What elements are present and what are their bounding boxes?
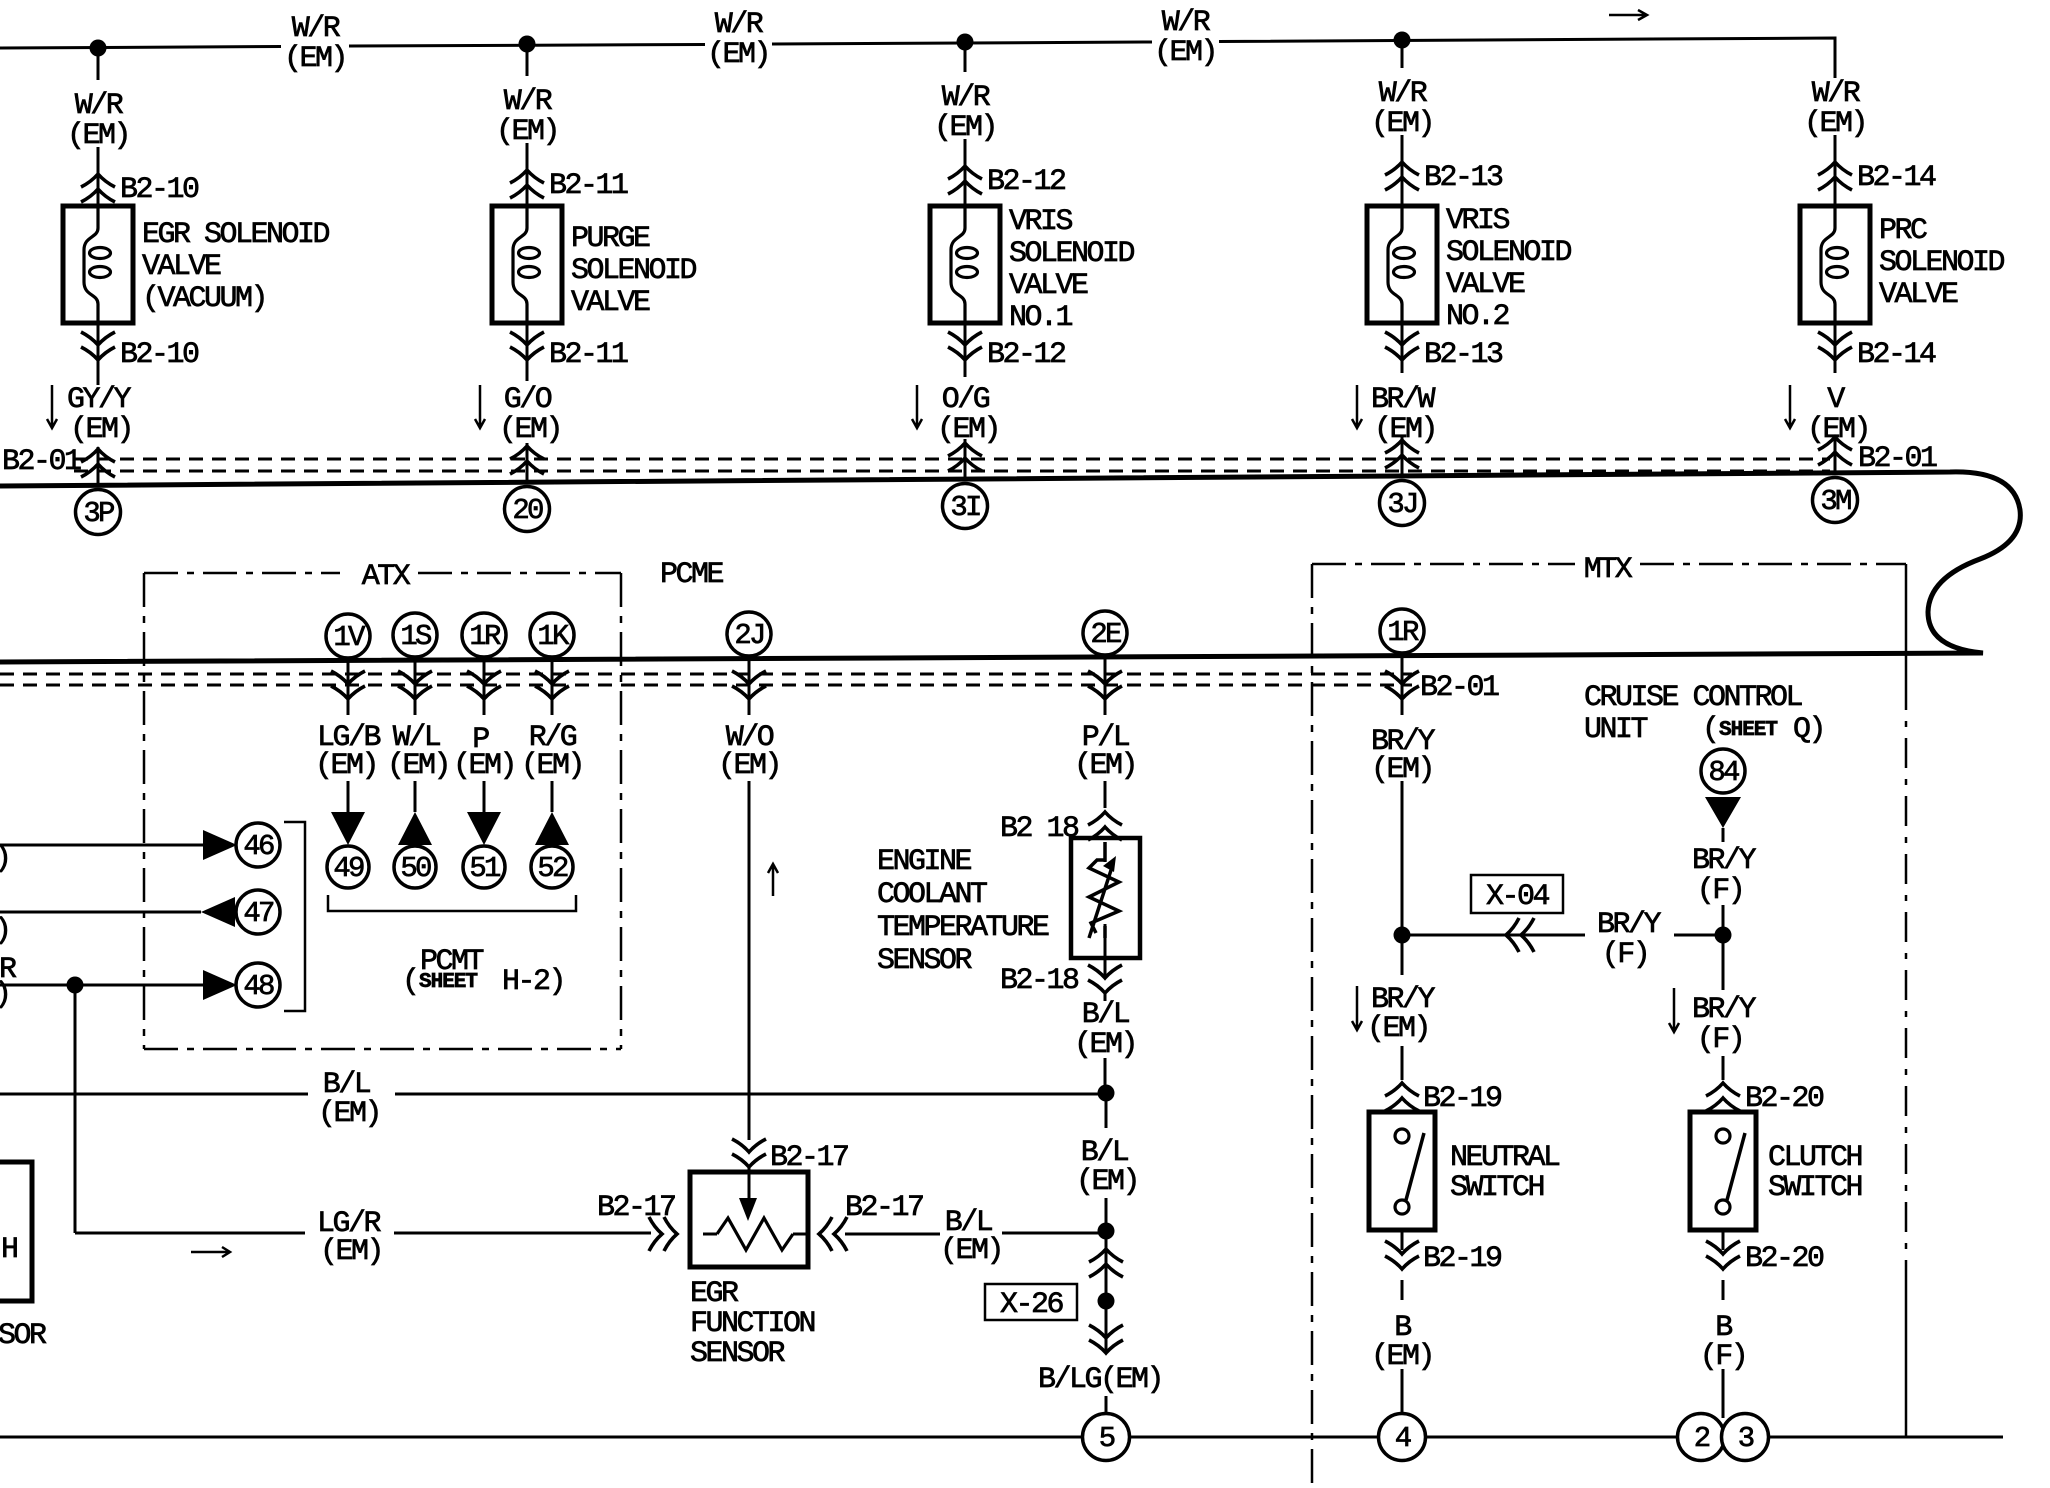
svg-text:H-2): H-2)	[502, 965, 564, 999]
svg-text:W/R: W/R	[715, 8, 764, 42]
svg-text:3J: 3J	[1387, 488, 1416, 521]
svg-text:ATX: ATX	[362, 560, 411, 594]
svg-text:W/R: W/R	[504, 85, 553, 119]
svg-text:W/R: W/R	[1162, 6, 1211, 40]
svg-text:4: 4	[1395, 1422, 1411, 1455]
svg-text:(EM): (EM)	[1074, 1028, 1136, 1062]
svg-text:VALVE: VALVE	[1009, 269, 1088, 303]
svg-text:48: 48	[243, 970, 274, 1003]
svg-text:(EM): (EM)	[1371, 1340, 1433, 1374]
svg-text:NEUTRAL: NEUTRAL	[1450, 1141, 1560, 1175]
svg-text:W/R: W/R	[75, 89, 124, 123]
svg-text:SWITCH: SWITCH	[1450, 1171, 1544, 1205]
svg-text:SOLENOID: SOLENOID	[1879, 246, 2005, 280]
svg-text:B2-01: B2-01	[1858, 442, 1937, 476]
svg-text:B2-14: B2-14	[1857, 338, 1936, 372]
svg-text:SOLENOID: SOLENOID	[571, 254, 697, 288]
svg-text:(F): (F)	[1700, 1340, 1747, 1374]
svg-text:3I: 3I	[950, 491, 980, 524]
svg-text:B/LG(EM): B/LG(EM)	[1038, 1363, 1162, 1397]
svg-text:G/O: G/O	[504, 383, 552, 417]
svg-text:(EM): (EM)	[1074, 749, 1136, 783]
svg-text:B2-12: B2-12	[987, 338, 1065, 372]
svg-text:50: 50	[400, 852, 431, 885]
svg-text:2: 2	[1694, 1422, 1710, 1455]
svg-text:3M: 3M	[1820, 485, 1851, 518]
svg-text:52: 52	[537, 852, 568, 885]
svg-text:VALVE: VALVE	[1446, 268, 1525, 302]
svg-text:COOLANT: COOLANT	[877, 878, 987, 912]
svg-text:PRC: PRC	[1879, 214, 1927, 248]
svg-text:VALVE: VALVE	[571, 286, 650, 320]
svg-text:B2-18: B2-18	[1000, 964, 1079, 998]
svg-text:(EM): (EM)	[320, 1235, 382, 1269]
svg-text:O/G: O/G	[942, 383, 990, 417]
svg-text:TEMPERATURE: TEMPERATURE	[877, 911, 1049, 945]
svg-text:(EM): (EM)	[284, 42, 346, 76]
svg-text:(F): (F)	[1697, 1023, 1744, 1057]
svg-text:B2-19: B2-19	[1423, 1242, 1501, 1276]
svg-text:CLUTCH: CLUTCH	[1768, 1141, 1862, 1175]
svg-text:VRIS: VRIS	[1446, 204, 1510, 238]
svg-text:3: 3	[1738, 1422, 1754, 1455]
svg-text:): )	[0, 842, 10, 876]
svg-text:SHEET: SHEET	[1719, 719, 1777, 742]
svg-text:B2-11: B2-11	[549, 169, 628, 203]
svg-text:W/R: W/R	[1812, 77, 1861, 111]
svg-text:(EM): (EM)	[521, 749, 583, 783]
svg-text:B2-10: B2-10	[120, 338, 199, 372]
svg-text:Q): Q)	[1793, 713, 1824, 747]
svg-text:B2-20: B2-20	[1745, 1242, 1824, 1276]
svg-text:84: 84	[1708, 756, 1739, 789]
svg-text:(: (	[1702, 713, 1718, 747]
svg-text:(EM): (EM)	[318, 1097, 380, 1131]
svg-text:2J: 2J	[734, 619, 763, 652]
svg-text:(EM): (EM)	[67, 119, 129, 153]
svg-text:5: 5	[1099, 1422, 1115, 1455]
svg-text:2E: 2E	[1090, 618, 1121, 651]
svg-text:BR/Y: BR/Y	[1597, 908, 1662, 942]
svg-text:NO.2: NO.2	[1446, 300, 1509, 334]
svg-text:MTX: MTX	[1584, 553, 1633, 587]
svg-text:BR/Y: BR/Y	[1692, 993, 1757, 1027]
svg-text:W/R: W/R	[1379, 77, 1428, 111]
svg-text:1R: 1R	[469, 620, 501, 653]
svg-text:PURGE: PURGE	[571, 222, 650, 256]
svg-text:H: H	[1, 1233, 17, 1267]
svg-text:B2-12: B2-12	[987, 165, 1065, 199]
svg-text:1V: 1V	[333, 621, 366, 654]
svg-text:B2-17: B2-17	[597, 1191, 675, 1225]
svg-text:SENSOR: SENSOR	[877, 944, 973, 978]
svg-text:1R: 1R	[1387, 616, 1419, 649]
svg-text:(EM): (EM)	[315, 749, 377, 783]
svg-text:SOLENOID: SOLENOID	[1009, 237, 1135, 271]
svg-text:1S: 1S	[400, 620, 431, 653]
svg-text:49: 49	[333, 852, 364, 885]
svg-text:(EM): (EM)	[1367, 1012, 1429, 1046]
svg-text:(VACUUM): (VACUUM)	[142, 282, 266, 316]
svg-text:20: 20	[512, 494, 543, 527]
svg-text:SOLENOID: SOLENOID	[1446, 236, 1572, 270]
svg-text:B2-01: B2-01	[1420, 671, 1499, 705]
svg-text:(F): (F)	[1697, 874, 1744, 908]
svg-text:(EM): (EM)	[940, 1234, 1002, 1268]
svg-text:PCME: PCME	[660, 558, 724, 592]
svg-text:(F): (F)	[1602, 938, 1649, 972]
svg-text:B2-11: B2-11	[549, 338, 628, 372]
svg-text:W/R: W/R	[292, 12, 341, 46]
svg-text:GY/Y: GY/Y	[67, 383, 132, 417]
svg-text:(EM): (EM)	[718, 749, 780, 783]
svg-text:VRIS: VRIS	[1009, 205, 1073, 239]
svg-text:46: 46	[243, 830, 274, 863]
svg-text:3P: 3P	[83, 497, 114, 530]
svg-text:(EM): (EM)	[937, 413, 999, 447]
svg-text:1K: 1K	[537, 620, 570, 653]
svg-text:(EM): (EM)	[707, 38, 769, 72]
svg-text:(: (	[402, 965, 418, 999]
svg-text:(EM): (EM)	[1804, 107, 1866, 141]
svg-text:(EM): (EM)	[387, 749, 449, 783]
svg-text:): )	[0, 978, 10, 1012]
svg-text:B2-13: B2-13	[1424, 161, 1503, 195]
svg-text:VALVE: VALVE	[142, 250, 221, 284]
svg-text:X-26: X-26	[1000, 1288, 1064, 1322]
svg-text:(EM): (EM)	[934, 111, 996, 145]
svg-text:BR/Y: BR/Y	[1692, 844, 1757, 878]
svg-text:B2-13: B2-13	[1424, 338, 1503, 372]
svg-text:SWITCH: SWITCH	[1768, 1171, 1862, 1205]
svg-text:B2-14: B2-14	[1857, 161, 1936, 195]
svg-text:BR/W: BR/W	[1371, 383, 1436, 417]
svg-text:EGR: EGR	[690, 1277, 739, 1311]
svg-text:W/R: W/R	[942, 81, 991, 115]
svg-text:B2-01: B2-01	[2, 445, 81, 479]
svg-text:(EM): (EM)	[496, 115, 558, 149]
svg-text:ENGINE: ENGINE	[877, 845, 972, 879]
svg-text:X-04: X-04	[1486, 880, 1550, 914]
svg-text:FUNCTION: FUNCTION	[690, 1307, 815, 1341]
svg-text:VALVE: VALVE	[1879, 278, 1958, 312]
svg-text:(EM): (EM)	[499, 413, 561, 447]
svg-text:): )	[0, 914, 10, 948]
svg-text:B/L: B/L	[1082, 998, 1130, 1032]
svg-text:(EM): (EM)	[1371, 107, 1433, 141]
svg-text:B2-17: B2-17	[845, 1191, 923, 1225]
svg-text:(EM): (EM)	[1076, 1165, 1138, 1199]
svg-text:51: 51	[469, 852, 500, 885]
svg-text:(EM): (EM)	[453, 749, 515, 783]
svg-text:47: 47	[243, 897, 274, 930]
svg-text:NO.1: NO.1	[1009, 301, 1073, 335]
svg-text:UNIT: UNIT	[1584, 713, 1648, 747]
svg-text:SOR: SOR	[0, 1319, 47, 1353]
svg-text:B2-10: B2-10	[120, 173, 199, 207]
svg-text:SENSOR: SENSOR	[690, 1337, 786, 1371]
svg-text:(EM): (EM)	[70, 413, 132, 447]
svg-text:SHEET: SHEET	[419, 971, 477, 994]
svg-text:(EM): (EM)	[1154, 36, 1216, 70]
svg-text:CRUISE CONTROL: CRUISE CONTROL	[1584, 681, 1803, 715]
svg-text:EGR SOLENOID: EGR SOLENOID	[142, 218, 330, 252]
svg-text:V: V	[1827, 383, 1845, 417]
svg-text:B2 18: B2 18	[1000, 812, 1079, 846]
